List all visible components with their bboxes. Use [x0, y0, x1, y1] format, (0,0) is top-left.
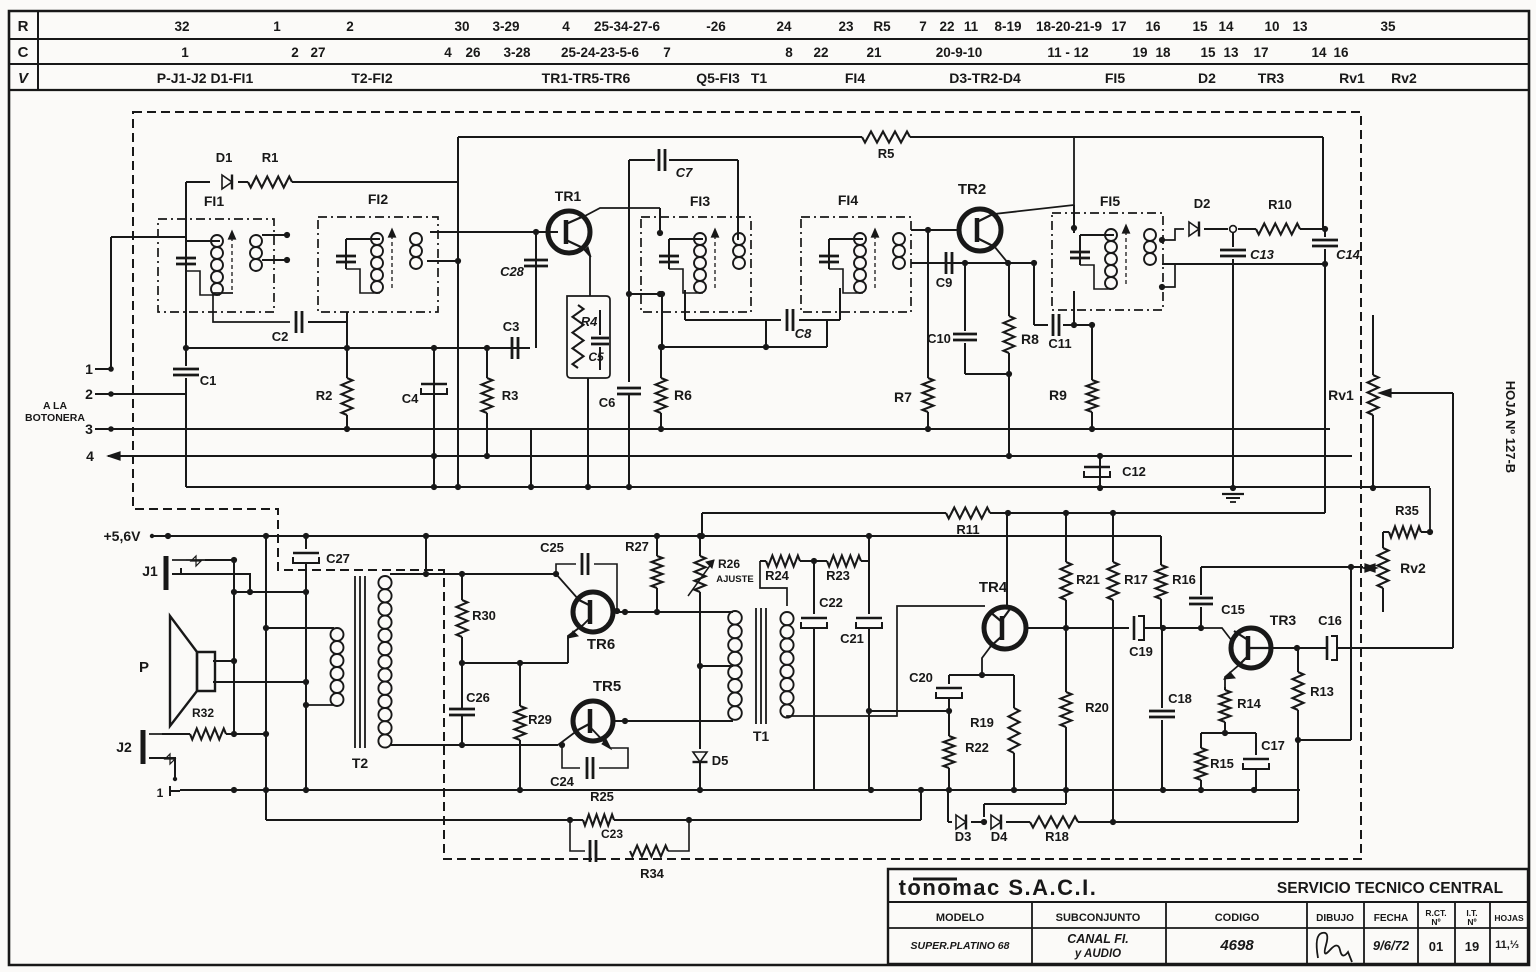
svg-text:15: 15: [1200, 45, 1216, 60]
svg-text:30: 30: [454, 19, 469, 34]
wire C8 to FI4: [799, 319, 840, 321]
svg-text:R7: R7: [894, 389, 912, 405]
capacitor C24: [586, 757, 589, 779]
ground symbol: [1222, 493, 1244, 495]
svg-text:26: 26: [465, 45, 481, 60]
svg-text:2: 2: [291, 45, 299, 60]
jack J2: [141, 730, 146, 764]
svg-text:SUPER.PLATINO 68: SUPER.PLATINO 68: [911, 940, 1010, 952]
svg-text:T2-FI2: T2-FI2: [351, 70, 392, 86]
wire R16 down: [1160, 601, 1162, 628]
resistor R7: [927, 230, 929, 378]
wire top line right: [910, 136, 1323, 138]
resistor R4: [573, 305, 584, 368]
wire bus4: [108, 455, 1352, 457]
svg-text:A LA: A LA: [43, 400, 68, 412]
svg-text:2: 2: [85, 386, 93, 402]
svg-text:FI5: FI5: [1100, 193, 1120, 209]
svg-text:C28: C28: [500, 264, 525, 279]
capacitor C25 line: [556, 564, 576, 574]
svg-text:22: 22: [813, 45, 828, 60]
svg-text:25-24-23-5-6: 25-24-23-5-6: [561, 45, 640, 60]
svg-text:BOTONERA: BOTONERA: [25, 412, 85, 424]
wire TR1 collector down to FI3: [659, 208, 661, 233]
potentiometer Rv2: [1378, 548, 1389, 588]
svg-text:22: 22: [939, 19, 954, 34]
R4 C5 box: [567, 296, 610, 378]
svg-text:7: 7: [663, 45, 671, 60]
wire FI1 input: [111, 236, 186, 238]
resistor R2: [342, 378, 353, 415]
capacitor C20: [936, 687, 962, 690]
wire R1 to x458: [298, 181, 458, 183]
capacitor C21 branch: [868, 536, 870, 614]
resistor R6: [660, 347, 662, 378]
svg-text:R10: R10: [1268, 197, 1292, 212]
TR4 collector lead: [1006, 513, 1008, 607]
transistor TR1: [548, 211, 590, 253]
wire C2 to FI2: [308, 321, 347, 323]
IF transformer FI5: [1052, 213, 1163, 310]
capacitor C16: [1326, 636, 1329, 660]
svg-text:C22: C22: [819, 595, 843, 610]
logo tbar: [913, 878, 957, 881]
svg-text:3: 3: [85, 421, 93, 437]
wire FI5 primary bottom: [1073, 291, 1075, 325]
wire x426 stub: [425, 536, 427, 574]
wire C13 to ground rail: [1232, 259, 1234, 488]
TR5 collector: [612, 720, 733, 722]
wire FI3 sec bottom to C8: [684, 290, 686, 320]
capacitor C25: [581, 553, 584, 575]
wire C20 bottom: [948, 698, 950, 711]
svg-text:C27: C27: [326, 551, 350, 566]
capacitor C19: [1133, 616, 1136, 640]
wire ground rail top-section: [186, 486, 1430, 488]
capacitor C21: [856, 617, 882, 620]
capacitor C14: [1312, 239, 1338, 242]
diode D3: [956, 815, 966, 829]
wire x306 down: [305, 562, 307, 790]
wire TR2 emitter line: [911, 262, 1034, 264]
wire C7 to FI3 secondary: [669, 159, 738, 161]
svg-text:FI5: FI5: [1105, 70, 1125, 86]
resistor R20: [1065, 628, 1067, 692]
svg-text:D5: D5: [712, 753, 729, 768]
wire R32 to x266: [234, 733, 266, 735]
svg-text:R22: R22: [965, 740, 989, 755]
svg-text:HOJA Nº 127-B: HOJA Nº 127-B: [1503, 381, 1518, 473]
svg-text:R5: R5: [878, 146, 895, 161]
svg-text:T2: T2: [352, 755, 369, 771]
wire x629 vertical: [628, 208, 630, 382]
wire C1 to rail: [185, 378, 187, 487]
capacitor C9: [945, 252, 948, 274]
svg-text:Nº: Nº: [1467, 917, 1476, 927]
wire bus1 up: [110, 237, 112, 369]
transistor TR2: [959, 209, 1001, 251]
transistor TR5: [573, 701, 613, 741]
svg-text:TR1-TR5-TR6: TR1-TR5-TR6: [542, 70, 631, 86]
svg-text:FI4: FI4: [838, 192, 858, 208]
resistor R16: [1160, 562, 1162, 565]
resistor R8: [1008, 263, 1010, 316]
wire FI5 primary feed: [1073, 205, 1075, 233]
svg-text:14: 14: [1218, 19, 1234, 34]
IF transformer FI4: [801, 217, 911, 312]
svg-text:C9: C9: [936, 275, 953, 290]
wire rail to R35: [1429, 488, 1431, 532]
TR3 emitter lead: [1225, 665, 1239, 687]
wire J1 contacts: [205, 559, 234, 561]
transformer T2 core: [354, 576, 356, 748]
diode D2: [1189, 222, 1199, 236]
title block column lines: [1031, 902, 1033, 964]
transistor TR4: [984, 607, 1026, 649]
diode D4: [991, 815, 1001, 829]
resistor R15: [1200, 733, 1202, 748]
svg-text:R27: R27: [625, 539, 649, 554]
svg-text:C1: C1: [200, 373, 217, 388]
svg-text:R2: R2: [316, 388, 333, 403]
wire R4C5 box bottom to rail: [587, 378, 589, 487]
wire x266 to y820: [265, 790, 267, 820]
wire C21 down: [868, 628, 870, 790]
wire Rv1 bottom: [1372, 415, 1374, 488]
node 4 terminal: [108, 452, 120, 460]
wire speaker top: [213, 660, 234, 662]
wire AGC line: [186, 347, 530, 349]
capacitor C3: [511, 337, 514, 359]
resistor R26 ajuste: [695, 556, 706, 592]
wire C11 line: [1033, 263, 1035, 325]
capacitor C7 line: [628, 160, 630, 208]
resistor R30: [461, 574, 463, 600]
T1 primary bottom lead: [625, 720, 733, 722]
svg-text:R19: R19: [970, 715, 994, 730]
svg-text:19: 19: [1132, 45, 1147, 60]
svg-text:1: 1: [181, 45, 189, 60]
TR2 collector lead: [994, 137, 1074, 214]
transistor TR6: [573, 592, 613, 632]
Rv2 wiper arrow: [1365, 564, 1377, 572]
svg-text:1: 1: [85, 361, 93, 377]
wire D1 left: [185, 182, 187, 237]
svg-text:R14: R14: [1237, 696, 1262, 711]
svg-text:11: 11: [964, 19, 979, 34]
svg-text:J1: J1: [142, 563, 158, 579]
svg-text:13: 13: [1292, 19, 1308, 34]
resistor R32: [162, 733, 190, 735]
capacitor C6: [617, 387, 641, 390]
TR3 base lead: [1201, 628, 1232, 641]
resistor R10: [1238, 228, 1256, 230]
svg-text:FI3: FI3: [690, 193, 710, 209]
transformer T1 primary: [728, 611, 742, 625]
svg-text:C21: C21: [840, 631, 864, 646]
svg-text:R13: R13: [1310, 684, 1334, 699]
svg-text:R35: R35: [1395, 503, 1419, 518]
svg-text:4: 4: [86, 448, 94, 464]
TR2 emitter lead: [994, 246, 1008, 263]
svg-text:TR3: TR3: [1258, 70, 1285, 86]
wire C28 branch: [535, 232, 537, 348]
wire FI5 sec bottom line: [1162, 263, 1325, 265]
svg-text:P-J1-J2 D1-FI1: P-J1-J2 D1-FI1: [157, 70, 254, 86]
svg-text:SERVICIO TECNICO CENTRAL: SERVICIO TECNICO CENTRAL: [1277, 880, 1503, 897]
svg-text:y AUDIO: y AUDIO: [1074, 948, 1121, 960]
svg-text:DIBUJO: DIBUJO: [1316, 913, 1354, 924]
capacitor C4: [421, 383, 447, 386]
wire FI4 sec to TR2 base: [911, 229, 957, 231]
capacitor C12 stub: [1099, 456, 1101, 488]
wire R20 below rail: [1065, 790, 1067, 804]
resistor R23: [806, 560, 827, 562]
svg-text:SUBCONJUNTO: SUBCONJUNTO: [1056, 912, 1141, 924]
wire J2 lower contact: [174, 770, 176, 779]
transformer T1 core: [755, 608, 757, 724]
wire x827 jog: [826, 320, 828, 347]
svg-text:23: 23: [838, 19, 854, 34]
svg-text:C5: C5: [588, 350, 604, 364]
svg-text:17: 17: [1253, 45, 1268, 60]
svg-text:C16: C16: [1318, 613, 1342, 628]
svg-text:C6: C6: [599, 395, 616, 410]
wire R35 left corner: [1382, 532, 1384, 548]
wire D3-D4: [971, 821, 986, 823]
wire D2 to node: [1204, 228, 1228, 230]
wire R13 down: [1297, 740, 1299, 822]
capacitor C17 branch: [1255, 733, 1257, 755]
svg-text:16: 16: [1333, 45, 1349, 60]
svg-text:Rv2: Rv2: [1391, 70, 1417, 86]
capacitor C5: [599, 310, 601, 335]
svg-text:-26: -26: [706, 19, 726, 34]
resistor R35: [1383, 531, 1389, 533]
svg-text:7: 7: [919, 19, 927, 34]
svg-text:27: 27: [310, 45, 325, 60]
svg-text:R25: R25: [590, 789, 614, 804]
svg-text:FECHA: FECHA: [1374, 913, 1408, 924]
wire FI3 primary bottom: [629, 293, 660, 295]
svg-text:TR4: TR4: [979, 579, 1008, 596]
svg-text:20-9-10: 20-9-10: [936, 45, 983, 60]
svg-text:R5: R5: [873, 19, 891, 34]
svg-text:C4: C4: [402, 391, 419, 406]
wire FI2 bottom vertical: [346, 312, 348, 378]
TR1 base bar lead: [548, 231, 558, 233]
svg-text:C13: C13: [1250, 247, 1275, 262]
wire T2 sec bottom to TR5: [390, 744, 558, 746]
resistor R5: [862, 132, 910, 143]
header table outline: [9, 89, 1529, 91]
capacitor C26: [449, 708, 475, 711]
svg-text:T1: T1: [753, 728, 770, 744]
TR6 internal leads: [579, 600, 591, 606]
wire R17 down: [1112, 602, 1114, 822]
svg-text:Rv2: Rv2: [1400, 560, 1426, 576]
wire R11 feed: [701, 513, 703, 536]
svg-text:R16: R16: [1172, 572, 1196, 587]
svg-text:4: 4: [562, 19, 570, 34]
wire C16 wires: [1297, 647, 1326, 649]
power rail +5.6V: [150, 535, 1161, 537]
svg-text:3-29: 3-29: [492, 19, 519, 34]
capacitor C1: [173, 368, 199, 371]
svg-text:R8: R8: [1021, 331, 1039, 347]
svg-text:24: 24: [776, 19, 792, 34]
speaker P: [197, 652, 215, 691]
jack J1: [164, 556, 169, 590]
diode D5: [693, 752, 707, 762]
svg-text:C17: C17: [1261, 738, 1285, 753]
capacitor C12: [1084, 466, 1110, 469]
Rv1 wiper arrow: [1379, 389, 1391, 397]
wire T2 sec top to TR6: [390, 573, 556, 575]
wire x306 top: [305, 536, 307, 549]
T1 center tap: [700, 665, 733, 667]
svg-text:R1: R1: [262, 150, 279, 165]
wire R26 vertical: [699, 536, 701, 556]
svg-text:8: 8: [785, 45, 793, 60]
svg-text:FI4: FI4: [845, 70, 865, 86]
svg-text:T1: T1: [751, 70, 768, 86]
svg-text:9/6/72: 9/6/72: [1373, 938, 1410, 953]
svg-text:18-20-21-9: 18-20-21-9: [1036, 19, 1102, 34]
svg-text:CODIGO: CODIGO: [1215, 912, 1260, 924]
IF transformer FI1: [158, 219, 274, 312]
FI1 secondary terminals: [262, 234, 287, 236]
capacitor C10 branch: [964, 263, 966, 331]
svg-text:C3: C3: [503, 319, 520, 334]
wire C15 top line to Rv2: [1201, 566, 1363, 568]
svg-text:C12: C12: [1122, 464, 1146, 479]
transistor TR3: [1231, 628, 1271, 668]
svg-text:R6: R6: [674, 387, 692, 403]
resistor R14: [1224, 687, 1226, 690]
svg-text:3-28: 3-28: [503, 45, 531, 60]
resistor R24: [760, 560, 766, 562]
resistor R25: [583, 815, 614, 826]
wire C19 right: [1145, 627, 1201, 629]
svg-text:R15: R15: [1210, 756, 1234, 771]
svg-text:D4: D4: [991, 829, 1008, 844]
svg-text:C15: C15: [1221, 602, 1245, 617]
resistor R29: [519, 663, 521, 706]
svg-text:R32: R32: [192, 706, 214, 720]
svg-text:R4: R4: [581, 314, 598, 329]
svg-text:R26: R26: [718, 557, 740, 571]
svg-text:FI2: FI2: [368, 191, 388, 207]
capacitor C15 branch: [1200, 567, 1202, 595]
wire bus2: [111, 393, 185, 395]
svg-text:32: 32: [174, 19, 189, 34]
svg-text:14: 14: [1311, 45, 1327, 60]
wire TR6 emitter bus: [462, 662, 568, 664]
TR4 emitter branches: [949, 674, 982, 676]
svg-text:C14: C14: [1336, 247, 1361, 262]
capacitor C13 branch: [1232, 232, 1234, 247]
TR1 collector lead: [583, 208, 660, 217]
svg-text:C19: C19: [1129, 644, 1153, 659]
T1 primary top lead: [625, 611, 733, 613]
T1 sec bottom lead: [787, 606, 985, 717]
capacitor C24 line: [562, 745, 580, 768]
resistor R3: [486, 348, 488, 378]
svg-text:C2: C2: [272, 329, 289, 344]
svg-text:D3: D3: [955, 829, 972, 844]
svg-text:01: 01: [1429, 939, 1443, 954]
wire C22 down: [813, 628, 815, 790]
rail corner to R16: [1160, 536, 1162, 562]
wire x266 vertical: [265, 536, 267, 790]
node 1 terminal: [108, 366, 114, 372]
svg-text:Rv1: Rv1: [1339, 70, 1365, 86]
diode D1: [222, 175, 232, 189]
svg-text:8-19: 8-19: [994, 19, 1021, 34]
svg-text:10: 10: [1264, 19, 1279, 34]
svg-text:R3: R3: [502, 388, 519, 403]
capacitor C22: [801, 617, 827, 620]
title block row line 1: [888, 901, 1528, 903]
svg-text:4: 4: [444, 45, 452, 60]
capacitor C22 branch: [813, 561, 815, 614]
wire y347 line: [662, 346, 827, 348]
svg-text:21: 21: [866, 45, 882, 60]
svg-text:R11: R11: [956, 522, 979, 537]
svg-text:C10: C10: [927, 331, 951, 346]
svg-text:C24: C24: [550, 774, 575, 789]
R25 bypass branch: [570, 820, 585, 851]
svg-text:Q5-FI3: Q5-FI3: [696, 70, 740, 86]
TR4 emitter bus: [1026, 627, 1129, 629]
svg-text:Nº: Nº: [1431, 917, 1440, 927]
wire FI2 sec out to TR1 base: [430, 231, 548, 233]
title block frame: [888, 869, 1528, 964]
node after D2: [1230, 226, 1237, 233]
title block row line 2: [888, 927, 1528, 929]
wire R11 line: [702, 512, 946, 514]
svg-text:AJUSTE: AJUSTE: [716, 574, 753, 585]
svg-text:R23: R23: [826, 568, 850, 583]
svg-text:C23: C23: [601, 827, 623, 841]
svg-text:R: R: [18, 18, 29, 35]
wire x458 vertical: [457, 137, 459, 487]
capacitor C28: [524, 259, 548, 262]
transformer T1 secondary: [780, 612, 793, 625]
svg-text:C7: C7: [676, 165, 693, 180]
svg-text:R20: R20: [1085, 700, 1109, 715]
wire R11 line right: [990, 512, 1325, 514]
wire R14 bottom branches: [1201, 732, 1225, 734]
svg-text:11 - 12: 11 - 12: [1047, 45, 1088, 60]
svg-text:R29: R29: [528, 712, 552, 727]
resistor R19: [1013, 675, 1015, 708]
capacitor C7: [658, 149, 661, 171]
svg-text:C20: C20: [909, 670, 933, 685]
wire feedback branch: [1350, 567, 1352, 740]
capacitor C2: [295, 311, 298, 333]
svg-text:TR1: TR1: [555, 188, 582, 204]
svg-text:13: 13: [1223, 45, 1239, 60]
svg-text:+5,6V: +5,6V: [104, 528, 142, 544]
svg-text:R30: R30: [472, 608, 496, 623]
svg-text:4698: 4698: [1219, 937, 1254, 954]
svg-text:TR3: TR3: [1270, 612, 1297, 628]
capacitor C18 branch: [1161, 628, 1163, 708]
wire D4 to R18: [1006, 821, 1030, 823]
wire y820 line: [266, 819, 583, 821]
